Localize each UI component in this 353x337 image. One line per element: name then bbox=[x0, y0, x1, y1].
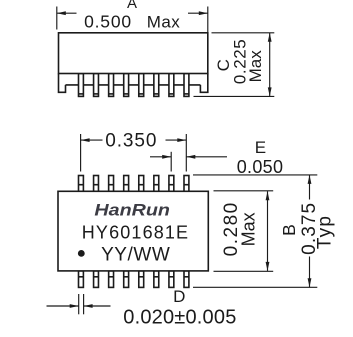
svg-text:0.500: 0.500 bbox=[84, 12, 132, 32]
svg-text:0.350: 0.350 bbox=[105, 130, 157, 151]
svg-text:0.050: 0.050 bbox=[237, 157, 284, 177]
svg-text:Max: Max bbox=[147, 13, 181, 32]
svg-text:Max: Max bbox=[238, 212, 258, 246]
svg-text:YY/WW: YY/WW bbox=[101, 245, 170, 266]
svg-text:D: D bbox=[173, 287, 185, 306]
svg-text:Max: Max bbox=[246, 50, 265, 83]
svg-text:E: E bbox=[255, 138, 266, 157]
svg-text:HanRun: HanRun bbox=[94, 200, 170, 219]
svg-text:HY601681E: HY601681E bbox=[82, 223, 189, 243]
svg-text:A: A bbox=[127, 0, 137, 12]
svg-text:Typ: Typ bbox=[314, 215, 335, 249]
svg-text:0.020±0.005: 0.020±0.005 bbox=[123, 307, 236, 329]
svg-text:B: B bbox=[279, 224, 299, 236]
